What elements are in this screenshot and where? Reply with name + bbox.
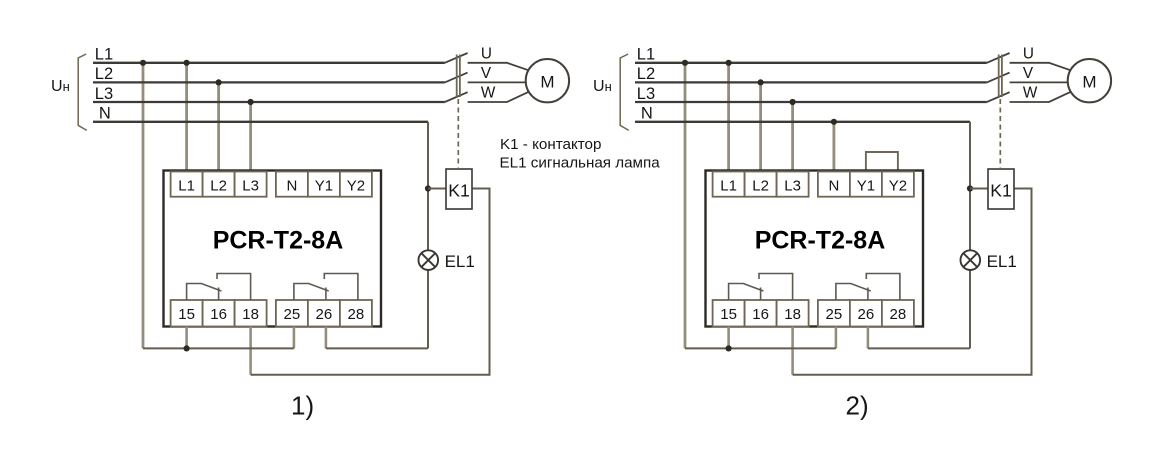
wire bus N circuit 2 (635, 121, 970, 123)
contactor coil K1 circuit 2 (988, 169, 1014, 209)
wire phase U circuit 2 (1010, 63, 1075, 72)
svg-text:PCR-T2-8A: PCR-T2-8A (755, 227, 886, 255)
terminal L3 circuit 2 (777, 172, 809, 197)
svg-text:U: U (1023, 45, 1034, 62)
svg-text:L2: L2 (637, 65, 655, 83)
svg-text:L1: L1 (637, 46, 655, 64)
svg-text:15: 15 (720, 306, 737, 323)
node K1 branch circuit 2 (967, 185, 973, 191)
relay contact 25-26-28 circuit 1 (294, 284, 329, 301)
svg-text:N: N (286, 178, 297, 195)
svg-text:18: 18 (242, 306, 259, 323)
svg-text:18: 18 (784, 306, 801, 323)
svg-text:Uн: Uн (593, 78, 612, 95)
bracket Un circuit 1 (78, 54, 87, 130)
wire bus L1 circuit 1 (93, 62, 445, 64)
terminal Y1 circuit 2 (850, 172, 882, 197)
terminal L1 circuit 2 (713, 172, 745, 197)
svg-text:L3: L3 (784, 178, 801, 195)
svg-text:EL1: EL1 (987, 252, 1017, 271)
relay device PCR-T2-8A circuit 1 (164, 171, 382, 327)
relay contact 15-16-18 circuit 2 (729, 284, 764, 301)
svg-text:U: U (481, 45, 492, 62)
wire L1 to terminal circuit 1 (185, 63, 188, 174)
terminal 18 circuit 2 (777, 300, 809, 327)
wire to K1 coil circuit 2 (970, 188, 988, 190)
wire long drop from L1 circuit 1 (142, 63, 145, 349)
node L3 tap circuit 2 (790, 99, 796, 105)
wire bus L2 circuit 1 (93, 81, 445, 83)
node junction 15 on rail circuit 2 (726, 345, 732, 351)
svg-text:L1: L1 (178, 178, 195, 195)
svg-text:EL1: EL1 (445, 252, 475, 271)
terminal 16 circuit 1 (203, 300, 235, 327)
svg-text:N: N (641, 105, 653, 123)
wire phase V circuit 1 (468, 81, 526, 83)
terminal L1 circuit 1 (171, 172, 203, 197)
svg-text:L3: L3 (637, 85, 655, 103)
wire terminal 26 drop circuit 1 (325, 327, 328, 349)
signal lamp EL1 circuit 1 (419, 250, 439, 270)
node L1 long-drop junction circuit 2 (682, 60, 688, 66)
bracket Un circuit 2 (620, 54, 629, 130)
svg-text:L2: L2 (752, 178, 769, 195)
svg-text:L1: L1 (720, 178, 737, 195)
wire terminal 18 drop circuit 2 (791, 327, 794, 375)
relay device PCR-T2-8A circuit 2 (706, 171, 924, 327)
contactor coil K1 circuit 1 (446, 169, 472, 209)
wire phase W circuit 1 (468, 90, 533, 102)
terminal L3 circuit 1 (235, 172, 267, 197)
wire N drop to coil and lamp circuit 2 (969, 122, 971, 251)
wire rail 26 to EL1 circuit 1 (326, 347, 428, 349)
svg-text:Y1: Y1 (315, 178, 333, 195)
svg-text:K1: K1 (990, 181, 1012, 201)
svg-text:L1: L1 (95, 46, 113, 64)
dashed link contactor to coil K1 circuit 2 (999, 99, 1001, 168)
wire L2 to terminal circuit 1 (217, 82, 220, 173)
svg-text:EL1 сигнальная лампа: EL1 сигнальная лампа (500, 154, 661, 171)
svg-text:25: 25 (826, 306, 843, 323)
node L3 tap circuit 1 (248, 99, 254, 105)
svg-text:M: M (1082, 72, 1096, 91)
wire N drop to coil and lamp circuit 1 (427, 122, 429, 251)
svg-text:L3: L3 (95, 85, 113, 103)
wire bus L3 circuit 1 (93, 101, 445, 103)
svg-text:K1 - контактор: K1 - контактор (500, 136, 601, 153)
wire L3 to terminal circuit 1 (249, 102, 252, 174)
wire terminal 15 drop circuit 2 (727, 327, 730, 349)
node L1 tap circuit 2 (726, 60, 732, 66)
svg-text:N: N (828, 178, 839, 195)
wire Y1-Y2 bridge circuit 2 (866, 152, 898, 172)
terminal L2 circuit 1 (203, 172, 235, 197)
wire bus N circuit 1 (93, 121, 428, 123)
svg-text:W: W (481, 85, 496, 102)
contactor linkage bars circuit 1 (456, 55, 458, 98)
svg-text:Y2: Y2 (889, 178, 907, 195)
terminal 18 circuit 1 (235, 300, 267, 327)
svg-text:K1: K1 (448, 181, 470, 201)
node L1 tap circuit 1 (184, 60, 190, 66)
svg-text:L2: L2 (95, 65, 113, 83)
svg-text:V: V (481, 65, 492, 82)
terminal Y2 circuit 1 (340, 172, 372, 197)
svg-text:26: 26 (858, 306, 875, 323)
wire phase V circuit 2 (1010, 81, 1068, 83)
svg-text:W: W (1023, 85, 1038, 102)
wire bus L3 circuit 2 (635, 101, 987, 103)
node junction 15 on rail circuit 1 (184, 345, 190, 351)
wire L2 to terminal circuit 2 (759, 82, 762, 173)
wire rail 18 to K1 circuit 2 (793, 189, 1032, 375)
relay contact 25-26-28 circuit 2 (836, 284, 871, 301)
node L2 tap circuit 1 (216, 79, 222, 85)
signal lamp EL1 circuit 2 (961, 250, 981, 270)
svg-text:28: 28 (348, 306, 365, 323)
svg-text:Y1: Y1 (857, 178, 875, 195)
terminal 26 circuit 2 (850, 300, 882, 327)
wire long drop from L1 circuit 2 (684, 63, 687, 349)
motor M circuit 1 (526, 59, 569, 102)
wire N to terminal circuit 2 (833, 122, 836, 174)
wire rail L1-15-25 circuit 1 (143, 347, 294, 349)
wire terminal 15 drop circuit 1 (185, 327, 188, 349)
wire terminal 25 drop circuit 2 (835, 327, 838, 349)
terminal N circuit 1 (276, 172, 308, 197)
terminal Y1 circuit 1 (308, 172, 340, 197)
node L2 tap circuit 2 (758, 79, 764, 85)
terminal 15 circuit 1 (171, 300, 203, 327)
terminal 28 circuit 2 (882, 300, 914, 327)
terminal 25 circuit 2 (818, 300, 850, 327)
contactor linkage bars circuit 2 (998, 55, 1000, 98)
terminal 28 circuit 1 (340, 300, 372, 327)
svg-text:28: 28 (890, 306, 907, 323)
svg-text:16: 16 (752, 306, 769, 323)
wire bus L2 circuit 2 (635, 81, 987, 83)
svg-text:25: 25 (284, 306, 301, 323)
wire rail L1-15-25 circuit 2 (685, 347, 836, 349)
svg-text:V: V (1023, 65, 1034, 82)
wire phase W circuit 2 (1010, 90, 1075, 102)
terminal N circuit 2 (818, 172, 850, 197)
terminal 25 circuit 1 (276, 300, 308, 327)
svg-text:L2: L2 (210, 178, 227, 195)
node N tap circuit 2 (831, 119, 837, 125)
wire terminal 18 drop circuit 1 (249, 327, 252, 375)
svg-text:Y2: Y2 (347, 178, 365, 195)
motor M circuit 2 (1068, 59, 1111, 102)
wire bus L1 circuit 2 (635, 62, 987, 64)
dashed link contactor to coil K1 circuit 1 (457, 99, 459, 168)
wire phase U circuit 1 (468, 63, 533, 72)
svg-text:26: 26 (316, 306, 333, 323)
node K1 branch circuit 1 (425, 185, 431, 191)
terminal 16 circuit 2 (745, 300, 777, 327)
svg-text:15: 15 (178, 306, 195, 323)
wire terminal 26 drop circuit 2 (867, 327, 870, 349)
wire rail 26 to EL1 circuit 2 (868, 347, 970, 349)
relay contact 15-16-18 circuit 1 (187, 284, 222, 301)
svg-text:N: N (99, 105, 111, 123)
terminal 15 circuit 2 (713, 300, 745, 327)
terminal Y2 circuit 2 (882, 172, 914, 197)
svg-text:PCR-T2-8A: PCR-T2-8A (213, 227, 344, 255)
contactor K1 main contacts circuit 1 (445, 53, 468, 63)
terminal 26 circuit 1 (308, 300, 340, 327)
svg-text:Uн: Uн (51, 78, 70, 95)
wire L3 to terminal circuit 2 (791, 102, 794, 174)
svg-text:2): 2) (846, 391, 869, 421)
svg-text:16: 16 (210, 306, 227, 323)
terminal L2 circuit 2 (745, 172, 777, 197)
node L1 long-drop junction circuit 1 (140, 60, 146, 66)
svg-text:L3: L3 (242, 178, 259, 195)
wire L1 to terminal circuit 2 (727, 63, 730, 174)
svg-text:1): 1) (291, 391, 314, 421)
contactor K1 main contacts circuit 2 (987, 53, 1010, 63)
wire to K1 coil circuit 1 (428, 188, 446, 190)
svg-text:M: M (540, 72, 554, 91)
wire terminal 25 drop circuit 1 (293, 327, 296, 349)
wire rail 18 to K1 circuit 1 (251, 189, 490, 375)
